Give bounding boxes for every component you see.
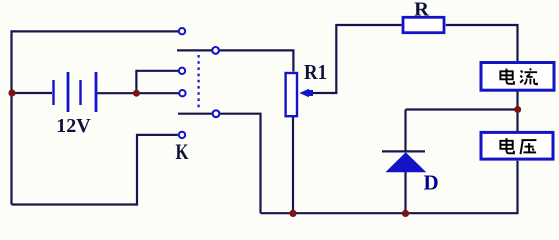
rheostat R1 body [286, 73, 297, 116]
wire R1 wiper to R [312, 25, 402, 93]
switch contact 4 (K) [179, 132, 185, 138]
wire junction riser to contact 2 [136, 71, 178, 93]
rheostat R1 wiper arrow [299, 89, 313, 98]
wire bottom-left to K [12, 135, 178, 205]
svg-text:R: R [414, 0, 429, 20]
svg-text:12V: 12V [56, 115, 91, 137]
ammeter label 电流 [500, 69, 514, 84]
wire blade B [178, 113, 212, 115]
wire node to diode branch [406, 108, 518, 110]
resistor R body [403, 17, 444, 32]
wire blade A [177, 49, 212, 51]
wire ammeter to voltmeter [516, 92, 518, 132]
switch contact 1 [179, 28, 185, 34]
svg-text:R1: R1 [304, 60, 327, 84]
junction node diode bottom [402, 210, 409, 217]
voltmeter box [481, 132, 553, 159]
svg-text:K: K [176, 139, 189, 164]
switch contact 2 [179, 68, 185, 74]
switch pole B contact [213, 110, 220, 117]
switch pole A contact [212, 47, 219, 54]
wire blade A to R1 top [219, 50, 293, 71]
wire diode top [404, 110, 406, 152]
wire diode bottom [404, 172, 406, 214]
battery 12V plates [54, 72, 97, 112]
switch contact 3 [179, 90, 185, 96]
junction node battery right [133, 90, 140, 97]
junction node R1 bottom [289, 210, 296, 217]
diode D triangle [385, 152, 426, 172]
junction node ammeter bottom [514, 106, 521, 113]
wire bottom rail to voltmeter [261, 161, 518, 213]
svg-text:D: D [424, 171, 439, 195]
wire battery left [12, 92, 53, 94]
wire R to ammeter [446, 25, 518, 62]
ammeter box [481, 63, 554, 91]
junction node battery left [8, 89, 15, 96]
wire battery right to contact [98, 92, 179, 94]
wire R1 bottom [292, 117, 294, 213]
voltmeter label 电压 [500, 138, 514, 153]
switch K dotted link [198, 55, 200, 109]
wire top-left loop [12, 31, 179, 204]
diode D cathode bar [382, 150, 425, 152]
wire blade B to bottom rail [220, 114, 261, 214]
